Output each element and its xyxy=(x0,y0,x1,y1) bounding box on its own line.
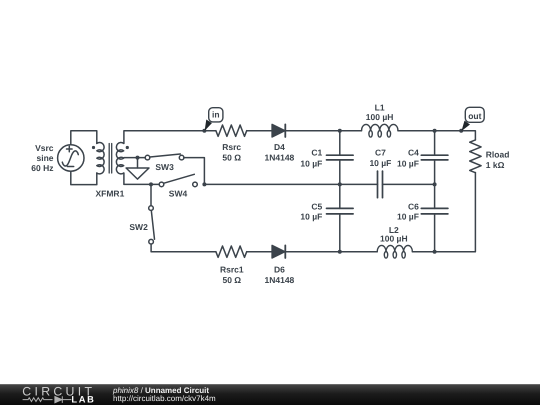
svg-text:C1: C1 xyxy=(311,148,322,158)
junction: L1/C4 node xyxy=(433,129,437,133)
node out (junction, top rail) xyxy=(459,129,463,133)
resistor Rsrc1 xyxy=(216,246,247,257)
capacitor C5 xyxy=(327,184,354,251)
transformer core xyxy=(109,144,112,174)
primary polarity dot xyxy=(92,146,95,149)
logo symbol: zigzag + diode xyxy=(23,396,72,403)
svg-text:1N4148: 1N4148 xyxy=(265,152,295,162)
svg-text:C6: C6 xyxy=(408,201,419,211)
junction: SW3/SW4 to middle rail xyxy=(202,182,206,186)
junction: SW4/SW2 xyxy=(149,182,153,186)
svg-text:C7: C7 xyxy=(375,148,386,158)
svg-text:100 µH: 100 µH xyxy=(366,112,394,122)
svg-text:L1: L1 xyxy=(375,102,385,112)
wire: center tap xyxy=(124,157,145,159)
middle rail left xyxy=(204,183,339,185)
svg-text:Rload: Rload xyxy=(486,149,510,159)
junction: C4/C6 middle rail xyxy=(433,182,437,186)
svg-text:1N4148: 1N4148 xyxy=(265,275,295,285)
switch SW2 xyxy=(149,184,216,251)
flag in box xyxy=(209,108,223,122)
wire: secondary bottom xyxy=(124,173,161,184)
svg-text:50 Ω: 50 Ω xyxy=(222,152,241,162)
transformer XFMR1 secondary winding xyxy=(116,143,123,174)
wire: source bottom xyxy=(71,171,97,184)
wire: Rsrc1 to D6 xyxy=(247,251,272,253)
resistor Rload xyxy=(470,140,481,173)
capacitor C7 xyxy=(378,171,383,198)
switch SW3 xyxy=(145,154,184,160)
flag in pointer xyxy=(205,120,212,131)
svg-text:10 µF: 10 µF xyxy=(397,159,419,169)
node in (junction, top rail) xyxy=(202,129,206,133)
svg-text:SW4: SW4 xyxy=(169,189,188,199)
ground stem xyxy=(137,158,139,168)
svg-text:10 µF: 10 µF xyxy=(369,158,391,168)
svg-text:out: out xyxy=(468,111,481,121)
svg-text:10 µF: 10 µF xyxy=(300,212,322,222)
wire: SW3 right to SW4 right junction xyxy=(184,158,205,185)
wire: D6 to node xyxy=(285,251,340,253)
svg-text:10 µF: 10 µF xyxy=(397,212,419,222)
svg-text:Vsrc: Vsrc xyxy=(35,143,54,153)
svg-text:XFMR1: XFMR1 xyxy=(95,189,124,199)
svg-text:60 Hz: 60 Hz xyxy=(31,163,53,173)
svg-text:100 µH: 100 µH xyxy=(380,234,408,244)
svg-text:SW2: SW2 xyxy=(129,222,148,232)
flag out pointer xyxy=(462,121,471,131)
wire: source top xyxy=(71,131,97,145)
wire: L1 to right rail xyxy=(398,130,435,132)
junction: D4/C1/L1 node xyxy=(338,129,342,133)
wire: D4 to node xyxy=(285,130,340,132)
secondary polarity dot xyxy=(126,146,129,149)
svg-text:http://circuitlab.com/ckv7k4m: http://circuitlab.com/ckv7k4m xyxy=(113,394,216,403)
svg-text:D6: D6 xyxy=(274,265,285,275)
junction: center tap / ground xyxy=(136,156,140,160)
resistor Rsrc xyxy=(216,125,247,136)
switch SW4 xyxy=(159,174,197,186)
ground triangle xyxy=(126,168,149,179)
svg-text:sine: sine xyxy=(36,153,53,163)
wire: L2 to right node xyxy=(412,251,434,253)
svg-text:LAB: LAB xyxy=(71,395,95,405)
wire: node to L1 xyxy=(340,130,362,132)
junction: L2/C6 bottom rail xyxy=(433,250,437,254)
svg-text:Rsrc: Rsrc xyxy=(222,142,241,152)
capacitor C4 xyxy=(421,131,448,185)
capacitor C1 xyxy=(327,131,354,185)
flag out box xyxy=(465,107,484,122)
wire: Rsrc to D4 xyxy=(247,130,272,132)
svg-text:10 µF: 10 µF xyxy=(300,159,322,169)
inductor L2 xyxy=(377,245,412,251)
middle rail to C7 xyxy=(340,183,378,185)
svg-text:in: in xyxy=(212,110,220,120)
diode D6 xyxy=(272,245,285,258)
svg-text:C5: C5 xyxy=(311,201,322,211)
diode D4 xyxy=(272,124,285,137)
svg-text:1 kΩ: 1 kΩ xyxy=(486,160,505,170)
wire: Rload bottom xyxy=(435,173,476,252)
inductor L1 xyxy=(362,124,399,130)
wire: right node to out corner, down Rload xyxy=(435,131,476,140)
capacitor C6 xyxy=(421,184,448,251)
wire: node to L2 xyxy=(340,251,377,253)
branding bar xyxy=(0,384,540,405)
junction: D6/C5/L2 node xyxy=(338,250,342,254)
transformer XFMR1 primary winding xyxy=(97,142,104,173)
svg-text:SW3: SW3 xyxy=(155,162,174,172)
voltage source Vsrc xyxy=(58,145,84,171)
wire: secondary top to rail xyxy=(124,131,216,144)
middle rail right xyxy=(383,183,435,185)
svg-text:Rsrc1: Rsrc1 xyxy=(220,265,244,275)
junction: C1/C5 middle rail xyxy=(338,182,342,186)
svg-text:50 Ω: 50 Ω xyxy=(222,275,241,285)
svg-text:C4: C4 xyxy=(408,148,419,158)
svg-text:D4: D4 xyxy=(274,142,285,152)
